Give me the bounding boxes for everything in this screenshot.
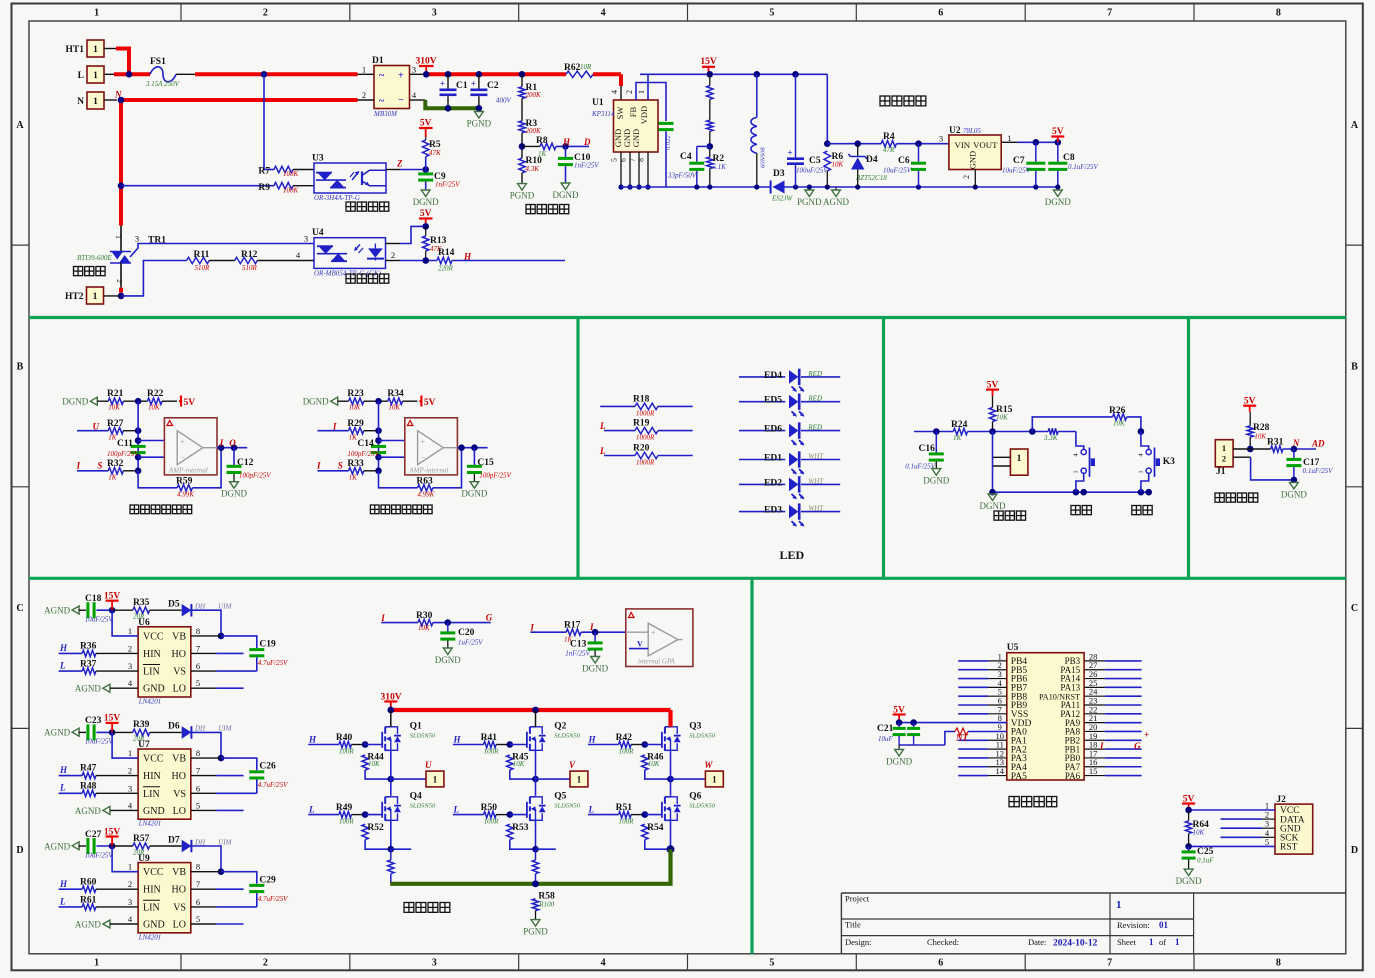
svg-text:GND: GND — [968, 151, 978, 169]
svg-text:PGND: PGND — [523, 927, 548, 937]
svg-text:4: 4 — [610, 90, 619, 94]
svg-text:AGND: AGND — [44, 728, 70, 738]
svg-text:AMP-internal: AMP-internal — [168, 467, 208, 475]
svg-text:R8: R8 — [536, 136, 548, 146]
svg-text:10uF/25V: 10uF/25V — [1002, 167, 1031, 175]
svg-text:U2: U2 — [949, 126, 961, 136]
svg-text:6: 6 — [938, 8, 943, 19]
svg-text:1000R: 1000R — [636, 434, 655, 442]
svg-text:Z: Z — [396, 159, 403, 169]
svg-text:PGND: PGND — [467, 119, 492, 129]
svg-text:3: 3 — [128, 897, 132, 907]
svg-text:200K: 200K — [526, 127, 542, 135]
svg-text:B: B — [1351, 361, 1358, 372]
svg-text:0.022: 0.022 — [665, 135, 672, 150]
svg-text:DH: DH — [194, 725, 206, 733]
svg-text:C25: C25 — [1197, 847, 1214, 857]
svg-text:−: − — [398, 95, 404, 106]
svg-text:R20: R20 — [633, 444, 650, 454]
svg-text:R17: R17 — [564, 621, 581, 631]
svg-text:0.1uF/25V: 0.1uF/25V — [905, 463, 935, 471]
svg-text:Revision:: Revision: — [1117, 920, 1150, 930]
svg-text:DGND: DGND — [582, 664, 608, 674]
svg-text:Project: Project — [845, 894, 870, 904]
svg-text:R32: R32 — [107, 459, 124, 469]
svg-text:G: G — [1134, 741, 1141, 751]
svg-text:H: H — [562, 137, 571, 147]
svg-text:1: 1 — [1175, 937, 1180, 947]
svg-text:R19: R19 — [633, 419, 650, 429]
svg-text:SLD5N50: SLD5N50 — [689, 733, 715, 740]
svg-text:C20: C20 — [458, 628, 475, 638]
svg-text:10K: 10K — [513, 760, 525, 768]
svg-text:U9: U9 — [138, 854, 150, 864]
svg-text:1: 1 — [637, 90, 646, 94]
svg-text:ED6: ED6 — [764, 425, 782, 435]
svg-text:−: − — [421, 454, 426, 463]
svg-text:C23: C23 — [85, 716, 102, 726]
svg-text:UIM: UIM — [218, 838, 232, 846]
svg-text:D3: D3 — [773, 169, 785, 179]
svg-text:DGND: DGND — [221, 489, 247, 499]
svg-text:U7: U7 — [138, 740, 150, 750]
svg-text:8: 8 — [637, 158, 646, 162]
svg-text:DGND: DGND — [923, 476, 949, 486]
svg-text:33pF/50V: 33pF/50V — [667, 172, 697, 180]
svg-text:SLD5N50: SLD5N50 — [554, 733, 580, 740]
svg-text:D: D — [16, 845, 23, 856]
svg-text:8: 8 — [196, 626, 200, 636]
svg-text:1: 1 — [93, 97, 98, 107]
svg-text:R52: R52 — [367, 823, 384, 833]
svg-text:LIN: LIN — [143, 902, 160, 913]
svg-text:AGND: AGND — [75, 920, 101, 930]
svg-text:LED: LED — [780, 548, 805, 562]
svg-text:R61: R61 — [80, 895, 97, 905]
svg-text:DH: DH — [194, 838, 206, 846]
svg-text:DGND: DGND — [553, 190, 579, 200]
svg-text:100R: 100R — [484, 818, 500, 826]
svg-text:R31: R31 — [1267, 438, 1284, 448]
svg-text:5: 5 — [769, 8, 774, 19]
svg-text:R51: R51 — [616, 803, 633, 813]
svg-text:R12: R12 — [241, 250, 258, 260]
svg-text:VCC: VCC — [143, 754, 164, 765]
svg-text:15V: 15V — [700, 57, 717, 67]
svg-text:RST: RST — [1280, 843, 1298, 853]
svg-text:WHT: WHT — [808, 453, 824, 461]
svg-text:4.99K: 4.99K — [177, 491, 194, 499]
svg-text:R62: R62 — [564, 63, 581, 73]
svg-text:10K: 10K — [148, 404, 160, 412]
svg-text:2: 2 — [128, 643, 132, 653]
svg-text:HT2: HT2 — [65, 292, 84, 302]
svg-text:of: of — [1159, 937, 1166, 947]
svg-text:DGND: DGND — [62, 397, 88, 407]
svg-text:60NS08: 60NS08 — [760, 147, 767, 168]
svg-text:RED: RED — [807, 370, 822, 378]
svg-text:GND: GND — [631, 129, 641, 147]
svg-text:H: H — [308, 735, 317, 745]
svg-text:1K: 1K — [108, 474, 117, 482]
svg-text:100R: 100R — [484, 748, 500, 756]
svg-text:C5: C5 — [809, 156, 821, 166]
svg-text:I: I — [1099, 741, 1104, 751]
svg-text:U: U — [425, 760, 432, 770]
svg-text:8: 8 — [1276, 8, 1281, 19]
svg-text:R54: R54 — [647, 823, 664, 833]
svg-text:6: 6 — [619, 158, 628, 162]
svg-text:R22: R22 — [147, 389, 164, 399]
svg-text:G: G — [486, 613, 493, 623]
svg-text:C11: C11 — [117, 439, 133, 449]
svg-text:S: S — [338, 461, 343, 471]
svg-text:+: + — [788, 147, 793, 157]
svg-text:~: ~ — [379, 71, 385, 82]
svg-text:10K: 10K — [1193, 829, 1205, 837]
svg-text:1uF/25V: 1uF/25V — [458, 639, 483, 647]
svg-text:2: 2 — [1222, 454, 1226, 464]
svg-text:0.1uF: 0.1uF — [1197, 857, 1214, 865]
svg-text:100pF/25V: 100pF/25V — [347, 450, 379, 458]
svg-text:1: 1 — [94, 8, 99, 19]
svg-text:H: H — [463, 252, 472, 262]
svg-text:4.7uF/25V: 4.7uF/25V — [258, 659, 288, 667]
svg-text:SLD5N50: SLD5N50 — [410, 733, 436, 740]
svg-text:SLD5N50: SLD5N50 — [554, 803, 580, 810]
svg-text:10K: 10K — [648, 760, 660, 768]
svg-text:Q2: Q2 — [554, 722, 566, 732]
svg-text:DGND: DGND — [1281, 489, 1307, 499]
svg-text:+: + — [180, 437, 185, 446]
svg-text:1000R: 1000R — [636, 409, 655, 417]
svg-text:3: 3 — [304, 234, 308, 244]
svg-text:DGND: DGND — [980, 501, 1006, 511]
svg-text:10uF/25V: 10uF/25V — [883, 167, 912, 175]
svg-text:10K: 10K — [996, 414, 1008, 422]
svg-text:C: C — [1351, 603, 1358, 614]
svg-text:R100: R100 — [538, 901, 554, 909]
svg-text:4.7uF/25V: 4.7uF/25V — [258, 895, 288, 903]
svg-text:DGND: DGND — [413, 197, 439, 207]
svg-text:0.1uF/25V: 0.1uF/25V — [1068, 163, 1098, 171]
svg-text:100pF/25V: 100pF/25V — [239, 472, 271, 480]
svg-text:3.15A 250V: 3.15A 250V — [145, 80, 180, 88]
svg-text:10K: 10K — [1113, 420, 1125, 428]
svg-text:R59: R59 — [176, 477, 193, 487]
svg-text:R18: R18 — [633, 394, 650, 404]
svg-text:L: L — [453, 805, 460, 815]
svg-text:ED1: ED1 — [764, 454, 782, 464]
svg-text:R34: R34 — [387, 389, 404, 399]
svg-text:7: 7 — [628, 158, 637, 162]
svg-text:WHT: WHT — [808, 505, 824, 513]
svg-text:UIM: UIM — [218, 603, 232, 611]
svg-text:8: 8 — [196, 862, 200, 872]
svg-text:C4: C4 — [680, 152, 692, 162]
svg-text:R36: R36 — [80, 642, 97, 652]
svg-text:PGND: PGND — [510, 191, 535, 201]
svg-text:R35: R35 — [133, 598, 150, 608]
svg-text:FB: FB — [628, 106, 638, 117]
svg-text:D7: D7 — [168, 835, 180, 845]
svg-text:R50: R50 — [481, 803, 498, 813]
svg-text:OR-3H4A-TP-G: OR-3H4A-TP-G — [314, 194, 360, 202]
svg-text:78L05: 78L05 — [963, 127, 981, 135]
svg-text:R21: R21 — [107, 389, 124, 399]
svg-text:6: 6 — [938, 958, 943, 969]
svg-text:R28: R28 — [1253, 423, 1270, 433]
svg-text:LO: LO — [173, 806, 186, 817]
svg-text:ED2: ED2 — [764, 478, 782, 488]
svg-text:1nF/25V: 1nF/25V — [574, 162, 599, 170]
svg-text:C2: C2 — [487, 81, 499, 91]
svg-text:LIN: LIN — [143, 667, 160, 678]
svg-text:PGND: PGND — [797, 197, 822, 207]
svg-text:100R: 100R — [339, 748, 355, 756]
svg-text:Title: Title — [845, 920, 861, 930]
svg-text:01: 01 — [1159, 920, 1169, 930]
svg-text:I: I — [529, 623, 534, 633]
svg-text:C8: C8 — [1063, 153, 1075, 163]
svg-text:V: V — [569, 760, 576, 770]
svg-text:4.7uF/25V: 4.7uF/25V — [258, 781, 288, 789]
svg-text:VOUT: VOUT — [973, 140, 998, 150]
svg-text:7: 7 — [1107, 958, 1112, 969]
svg-text:2: 2 — [128, 879, 132, 889]
svg-text:DGND: DGND — [1176, 876, 1202, 886]
svg-text:C15: C15 — [477, 458, 494, 468]
svg-text:R60: R60 — [80, 877, 97, 887]
svg-text:1: 1 — [114, 235, 122, 239]
svg-text:J1: J1 — [1216, 467, 1226, 477]
svg-text:10K: 10K — [832, 161, 844, 169]
svg-text:R29: R29 — [347, 419, 364, 429]
svg-text:A: A — [1351, 120, 1359, 131]
svg-text:+: + — [1144, 730, 1149, 740]
svg-text:−: − — [181, 454, 186, 463]
svg-text:U3: U3 — [312, 154, 324, 164]
svg-text:1: 1 — [1073, 470, 1080, 473]
svg-text:8: 8 — [196, 748, 200, 758]
svg-text:RED: RED — [807, 395, 822, 403]
svg-text:LN4201: LN4201 — [138, 820, 162, 828]
svg-text:H: H — [453, 735, 462, 745]
svg-text:1: 1 — [433, 775, 438, 785]
svg-text:L: L — [308, 805, 315, 815]
svg-text:VCC: VCC — [143, 867, 164, 878]
svg-text:1: 1 — [93, 45, 98, 55]
svg-text:H: H — [588, 735, 597, 745]
svg-text:R63: R63 — [416, 477, 433, 487]
svg-text:R14: R14 — [438, 248, 455, 258]
svg-text:KP3114: KP3114 — [591, 110, 615, 118]
svg-text:7: 7 — [196, 643, 200, 653]
svg-text:SLD5N50: SLD5N50 — [410, 803, 436, 810]
svg-text:J2: J2 — [1276, 795, 1286, 805]
svg-text:2: 2 — [263, 8, 268, 19]
svg-text:VIN: VIN — [955, 140, 971, 150]
svg-text:ED5: ED5 — [764, 396, 782, 406]
svg-text:~: ~ — [379, 96, 385, 107]
svg-text:7: 7 — [1107, 8, 1112, 19]
svg-text:+: + — [440, 79, 445, 89]
svg-text:C26: C26 — [259, 762, 276, 772]
svg-text:VB: VB — [172, 754, 186, 765]
svg-text:D4: D4 — [866, 155, 878, 165]
svg-text:H: H — [59, 879, 68, 889]
svg-text:2: 2 — [362, 90, 366, 100]
svg-text:AGND: AGND — [44, 841, 70, 851]
svg-text:H: H — [59, 765, 68, 775]
svg-text:1: 1 — [1222, 443, 1226, 453]
svg-text:4.99K: 4.99K — [417, 491, 434, 499]
svg-text:R40: R40 — [336, 733, 353, 743]
svg-text:C21: C21 — [877, 724, 894, 734]
svg-text:O: O — [229, 438, 236, 448]
svg-text:10K: 10K — [388, 404, 400, 412]
svg-text:10uF/25V: 10uF/25V — [85, 738, 114, 746]
svg-text:100uF/25V: 100uF/25V — [796, 167, 828, 175]
svg-text:2: 2 — [115, 279, 123, 283]
svg-text:1K: 1K — [953, 434, 962, 442]
svg-text:1: 1 — [93, 71, 98, 81]
svg-text:Q4: Q4 — [410, 792, 422, 802]
svg-text:10uF: 10uF — [878, 735, 894, 743]
svg-text:I: I — [76, 461, 81, 471]
svg-text:100R: 100R — [619, 748, 635, 756]
svg-text:LO: LO — [173, 684, 186, 695]
svg-text:C14: C14 — [357, 439, 374, 449]
svg-text:1K: 1K — [108, 434, 117, 442]
svg-text:C7: C7 — [1013, 156, 1025, 166]
svg-text:+: + — [471, 79, 476, 89]
svg-text:5: 5 — [196, 800, 200, 810]
svg-text:8: 8 — [1276, 958, 1281, 969]
svg-text:510R: 510R — [195, 264, 211, 272]
svg-text:R53: R53 — [512, 823, 529, 833]
svg-text:1nF/25V: 1nF/25V — [565, 650, 590, 658]
svg-text:1: 1 — [93, 292, 98, 302]
svg-text:HIN: HIN — [143, 649, 161, 660]
svg-text:A: A — [16, 120, 24, 131]
svg-text:47R: 47R — [883, 146, 895, 154]
svg-text:+: + — [651, 628, 656, 637]
svg-text:C18: C18 — [85, 594, 102, 604]
svg-text:R7: R7 — [258, 167, 270, 177]
svg-text:6: 6 — [196, 897, 200, 907]
svg-text:2: 2 — [391, 250, 395, 260]
svg-text:R30: R30 — [416, 611, 433, 621]
svg-text:ED3: ED3 — [764, 506, 782, 516]
svg-text:MB30M: MB30M — [373, 110, 398, 118]
svg-text:DH: DH — [194, 603, 206, 611]
svg-text:WHT: WHT — [808, 477, 824, 485]
svg-text:2: 2 — [263, 958, 268, 969]
svg-text:100R: 100R — [339, 818, 355, 826]
svg-text:C12: C12 — [237, 458, 254, 468]
svg-text:HO: HO — [172, 885, 186, 896]
svg-text:1: 1 — [1149, 937, 1154, 947]
svg-text:1: 1 — [577, 775, 582, 785]
svg-text:1K: 1K — [538, 150, 547, 158]
svg-text:GND: GND — [143, 806, 165, 817]
svg-text:100K: 100K — [283, 187, 299, 195]
svg-text:NT: NT — [955, 733, 968, 743]
svg-text:U1: U1 — [592, 98, 604, 108]
svg-text:D5: D5 — [168, 600, 180, 610]
svg-text:C29: C29 — [259, 875, 276, 885]
svg-text:R39: R39 — [133, 720, 150, 730]
svg-text:5: 5 — [769, 958, 774, 969]
svg-text:D: D — [583, 137, 591, 147]
svg-text:1: 1 — [712, 775, 717, 785]
svg-text:5V: 5V — [184, 398, 196, 408]
svg-text:ES2JW: ES2JW — [771, 195, 793, 203]
svg-text:3: 3 — [128, 661, 132, 671]
svg-text:DGND: DGND — [1045, 197, 1071, 207]
svg-text:5: 5 — [196, 678, 200, 688]
svg-text:R37: R37 — [80, 660, 97, 670]
svg-text:5.1K: 5.1K — [713, 163, 727, 171]
svg-text:2024-10-12: 2024-10-12 — [1053, 939, 1098, 949]
svg-text:AGND: AGND — [44, 606, 70, 616]
svg-text:HO: HO — [172, 771, 186, 782]
svg-text:Checked:: Checked: — [927, 937, 959, 947]
svg-text:10K: 10K — [368, 760, 380, 768]
svg-text:3.3K: 3.3K — [1043, 434, 1058, 442]
svg-text:VCC: VCC — [143, 631, 164, 642]
svg-text:HT1: HT1 — [66, 45, 85, 55]
svg-text:Sheet: Sheet — [1117, 937, 1137, 947]
svg-text:R57: R57 — [133, 834, 150, 844]
svg-text:1: 1 — [128, 862, 132, 872]
svg-text:+: + — [420, 437, 425, 446]
svg-text:10K: 10K — [108, 404, 120, 412]
svg-text:W: W — [704, 760, 713, 770]
svg-text:GND: GND — [143, 684, 165, 695]
svg-text:HIN: HIN — [143, 885, 161, 896]
svg-text:D1: D1 — [372, 56, 384, 66]
svg-text:LIN: LIN — [143, 789, 160, 800]
svg-text:VS: VS — [173, 902, 186, 913]
svg-text:C13: C13 — [570, 640, 587, 650]
svg-text:VB: VB — [172, 631, 186, 642]
svg-text:3: 3 — [432, 958, 437, 969]
svg-text:L: L — [78, 71, 84, 81]
svg-text:5: 5 — [610, 158, 619, 162]
svg-text:47K: 47K — [429, 149, 441, 157]
svg-text:1: 1 — [362, 65, 366, 75]
svg-text:Design:: Design: — [845, 937, 871, 947]
svg-text:R48: R48 — [80, 782, 97, 792]
svg-text:R23: R23 — [347, 389, 364, 399]
svg-text:I: I — [219, 438, 224, 448]
svg-text:5V: 5V — [424, 398, 436, 408]
svg-text:R4: R4 — [883, 132, 895, 142]
svg-text:1: 1 — [128, 626, 132, 636]
svg-text:VS: VS — [173, 667, 186, 678]
svg-text:AGND: AGND — [75, 806, 101, 816]
svg-text:AMP-internal: AMP-internal — [408, 467, 448, 475]
svg-text:internal GPA: internal GPA — [638, 658, 675, 666]
svg-text:I: I — [316, 461, 321, 471]
svg-text:AGND: AGND — [823, 197, 849, 207]
svg-text:U6: U6 — [138, 618, 150, 628]
svg-text:L: L — [599, 421, 606, 431]
svg-text:SW: SW — [615, 107, 625, 120]
svg-text:R49: R49 — [336, 803, 353, 813]
